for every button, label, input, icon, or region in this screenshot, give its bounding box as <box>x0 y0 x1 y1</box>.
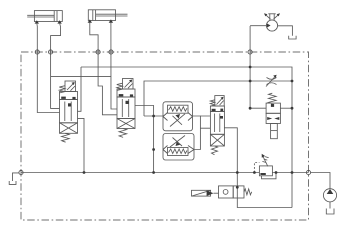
junction mid riser at frame F2 port <box>152 148 155 151</box>
cylinder C2 <box>88 10 128 23</box>
relief valve V5 <box>253 154 277 179</box>
junction on motor line at valve V4 port <box>249 107 252 110</box>
wire valve V2 right port to mid vertical <box>135 106 154 173</box>
junction mid riser at return line <box>152 171 155 174</box>
junction on right riser at L2 <box>291 80 294 83</box>
wire motor right port to drain tank <box>278 26 293 36</box>
solenoid valve V6 <box>192 186 252 198</box>
pump P1 <box>323 189 336 214</box>
throttle line L2 with corner feeding flow controls <box>144 81 292 116</box>
junction on right riser at return line <box>291 171 294 174</box>
junction on motor line at L2 <box>249 80 252 83</box>
flow control frame F2 <box>163 134 194 161</box>
tank symbol (motor drain) <box>289 36 296 39</box>
counterbalance valve V3 <box>210 96 224 155</box>
boundary port node P1 <box>35 50 39 54</box>
wire cyl1 right port to valve V1 <box>51 23 61 108</box>
cylinder C1 <box>27 11 62 24</box>
junction on motor line at L1 <box>249 66 252 69</box>
boundary port node T (tank, left) <box>19 170 23 174</box>
counterbalance valve V1 <box>59 81 77 142</box>
wire frame feed horizontal <box>144 115 163 117</box>
sequence valve V4 <box>266 93 280 139</box>
wire motor left port <box>250 25 266 27</box>
motor line vertical <box>250 26 266 108</box>
boundary port node P4 <box>109 50 113 54</box>
wire solenoid valve bottom loop <box>237 198 292 208</box>
junction valve V1 drain at return line <box>83 171 86 174</box>
boundary port node P3 <box>96 50 100 54</box>
wire frame F2 right up to valve V3 <box>194 116 210 150</box>
boundary port node P5 (motor line) <box>248 50 252 54</box>
wire cyl2 left port down to return <box>90 23 117 115</box>
return line <box>21 172 259 174</box>
hydraulic motor M1 <box>264 13 280 31</box>
manifold enclosure (dash-dot boundary) <box>21 52 309 220</box>
counterbalance valve V2 (slightly compressed) <box>117 79 135 138</box>
wire H1 linking cylinder cap lines <box>51 75 111 77</box>
wire valve V4 right port <box>280 107 292 109</box>
wire valve V1 lower-right port down to return line <box>78 118 85 172</box>
boundary port node P2 <box>49 50 53 54</box>
pressure line L1 <box>81 67 292 208</box>
wire cyl2 right port to valve V2 <box>111 23 117 110</box>
wire valve V1 upper-right port up to pressure line L1 <box>78 67 82 111</box>
junction mid riser at frame F1 port <box>152 115 155 118</box>
wire frame F1 right to valve V3 <box>193 115 211 117</box>
junction valve V3/V6 line at return line <box>236 171 239 174</box>
wire pump to boundary <box>311 173 330 189</box>
wire cyl1 left port down to valve V1 <box>37 23 60 113</box>
tank symbol (left) <box>9 173 19 185</box>
junction on right riser at valve V4 port <box>291 107 294 110</box>
boundary port node P (pump, right) <box>306 170 310 174</box>
flow control frame F1 <box>163 102 193 131</box>
wire valve V3 right port down through return to solenoid valve <box>224 128 237 186</box>
variable throttle TH1 on line L2 <box>266 75 277 87</box>
